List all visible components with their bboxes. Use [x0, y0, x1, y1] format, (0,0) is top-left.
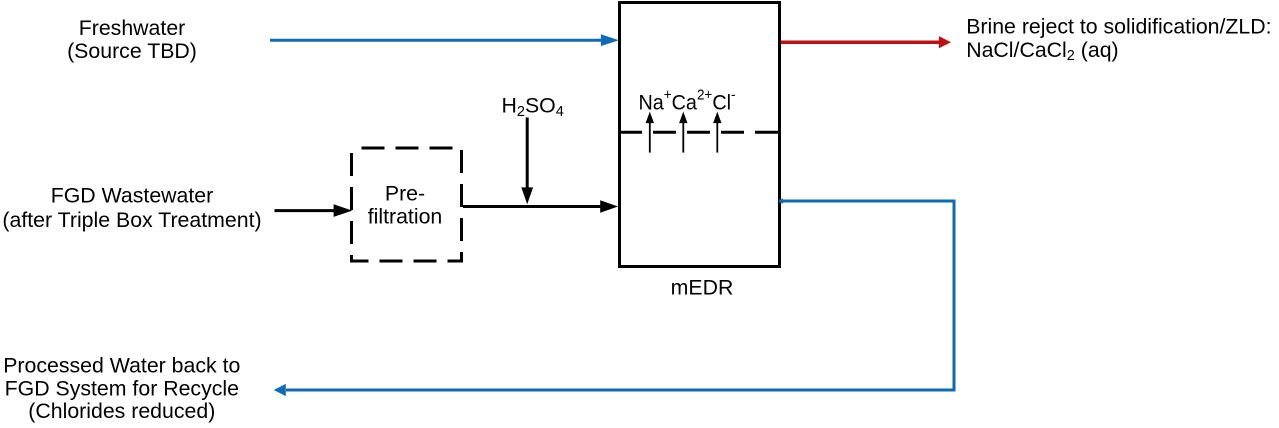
- svg-text:FGD System for Recycle: FGD System for Recycle: [5, 376, 239, 400]
- pre-filtration box (dashed): [352, 148, 462, 261]
- mEDR unit box: [620, 3, 780, 267]
- svg-text:(Chlorides reduced): (Chlorides reduced): [28, 399, 215, 423]
- svg-text:mEDR: mEDR: [671, 275, 734, 299]
- svg-text:(after Triple Box Treatment): (after Triple Box Treatment): [2, 208, 261, 232]
- ion transport arrow 1: [646, 112, 654, 153]
- svg-text:Na+Ca2+Cl-: Na+Ca2+Cl-: [639, 87, 736, 114]
- svg-text:FGD Wastewater: FGD Wastewater: [51, 183, 214, 207]
- svg-text:Processed Water back to: Processed Water back to: [3, 353, 240, 377]
- svg-text:H2SO4: H2SO4: [502, 94, 564, 120]
- membrane dashed line inside mEDR: [619, 131, 780, 134]
- ion transport arrow 3: [713, 112, 721, 153]
- wire: freshwater feed arrow (blue): [270, 34, 619, 46]
- ion transport arrow 2: [679, 112, 687, 153]
- label: pre-filtration: [368, 182, 443, 229]
- label: Freshwater source: [67, 16, 197, 63]
- wire: brine reject arrow (red): [781, 36, 951, 48]
- wire: processed water return (blue): [274, 198, 954, 396]
- svg-text:filtration: filtration: [368, 205, 443, 229]
- label: processed water return: [3, 353, 240, 423]
- svg-text:(Source TBD): (Source TBD): [67, 39, 197, 63]
- svg-text:Freshwater: Freshwater: [79, 16, 186, 40]
- label: FGD wastewater: [2, 183, 261, 232]
- svg-text:Pre-: Pre-: [385, 182, 425, 206]
- wire: FGD feed arrow into pre-filtration: [275, 204, 353, 217]
- wire: pre-filtration to mEDR arrow: [463, 200, 618, 213]
- svg-text:NaCl/CaCl2 (aq): NaCl/CaCl2 (aq): [966, 38, 1118, 64]
- H2SO4 dosing arrow (down): [521, 118, 533, 205]
- label: brine reject: [966, 15, 1271, 64]
- svg-text:Brine reject to solidification: Brine reject to solidification/ZLD:: [966, 15, 1271, 39]
